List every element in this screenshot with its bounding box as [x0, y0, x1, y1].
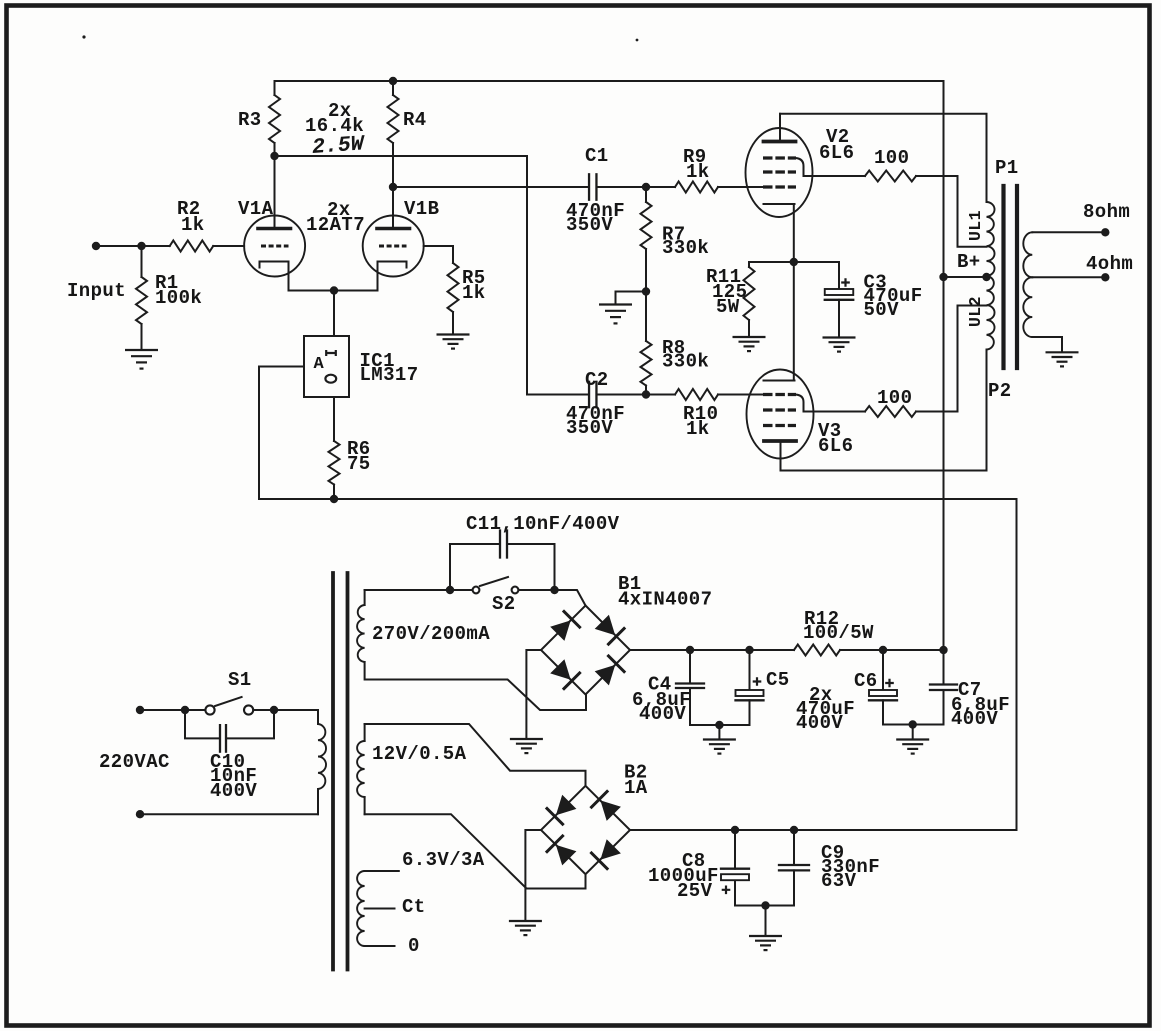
resistor 100 V3 screen: [804, 411, 866, 413]
svg-text:Ct: Ct: [402, 896, 426, 918]
svg-text:270V/200mA: 270V/200mA: [372, 623, 490, 645]
capacitor C10: [185, 710, 220, 738]
svg-text:350V: 350V: [566, 417, 613, 439]
ground C6 C7: [912, 725, 914, 739]
wire bias ground stub: [616, 292, 647, 304]
wire heater dc rail: [259, 498, 1017, 500]
wire AC line top: [140, 709, 205, 711]
capacitor C7: [943, 650, 945, 685]
wire cathode bus: [749, 261, 839, 263]
wire C8 C9 return: [735, 905, 794, 907]
svg-text:UL2: UL2: [966, 296, 985, 327]
svg-text:63V: 63V: [821, 870, 857, 892]
capacitor C9: [793, 830, 795, 865]
resistor R2: [170, 241, 214, 252]
wire R12 to B+ node: [840, 649, 944, 651]
wire heater dc out: [630, 829, 1017, 831]
svg-text:UL1: UL1: [966, 210, 985, 241]
node C5 junction: [745, 646, 753, 654]
wire 0 tap: [365, 945, 395, 947]
svg-text:P1: P1: [995, 157, 1019, 179]
ground B2: [509, 920, 542, 922]
svg-text:S1: S1: [228, 669, 252, 691]
bridge rectifier B2: [541, 786, 630, 874]
svg-text:V1B: V1B: [404, 198, 439, 220]
node B+ rail junction: [939, 273, 947, 281]
resistor R9: [646, 186, 675, 188]
svg-text:1k: 1k: [181, 214, 205, 236]
svg-text:6.3V/3A: 6.3V/3A: [402, 849, 485, 871]
wire Ct tap: [365, 908, 395, 910]
node C10 left junction: [181, 706, 189, 714]
pentode V3 6L6: [747, 370, 814, 459]
svg-text:A: A: [314, 355, 325, 374]
capacitor C1: [588, 174, 590, 199]
node C9 junction: [790, 826, 798, 834]
svg-text:C6: C6: [854, 670, 878, 692]
wire B+ drop: [943, 81, 945, 650]
transformer winding 6.3V/3A: [357, 871, 364, 946]
wire V2 cathode lead: [793, 204, 795, 381]
ground bias divider: [599, 303, 632, 305]
node C2 junction: [642, 390, 650, 398]
svg-text:8ohm: 8ohm: [1083, 201, 1130, 223]
wire V2 anode to P1 top: [780, 114, 987, 202]
svg-text:P2: P2: [988, 380, 1012, 402]
switch S2: [480, 577, 508, 586]
svg-text:100: 100: [877, 387, 912, 409]
svg-text:4xIN4007: 4xIN4007: [618, 589, 712, 611]
wire top B+ rail: [275, 80, 944, 82]
resistor R5: [452, 246, 454, 263]
wire input: [96, 245, 170, 247]
node 4ohm terminal: [1101, 273, 1109, 281]
node C8 junction: [731, 826, 739, 834]
wire to IC1 input: [333, 291, 335, 337]
svg-text:LM317: LM317: [360, 364, 419, 386]
diode B2 D4: [600, 839, 621, 860]
wire HT to S2: [365, 589, 473, 591]
svg-text:12V/0.5A: 12V/0.5A: [372, 743, 467, 765]
svg-text:1k: 1k: [686, 418, 710, 440]
node V2 V3 cathode junction: [790, 258, 798, 266]
resistor 100 V2 screen: [804, 175, 866, 177]
resistor R8: [645, 292, 647, 342]
node C11 right junction: [550, 586, 558, 594]
resistor R6: [329, 441, 340, 485]
svg-text:B+: B+: [957, 251, 981, 273]
wire IC1 adj loop: [259, 367, 304, 500]
wire C6 C7 return: [883, 724, 944, 726]
svg-text:5W: 5W: [716, 296, 740, 318]
ground C4 C5: [718, 725, 720, 739]
switch S1: [215, 697, 242, 706]
node C6 C7 ground junction: [909, 720, 917, 728]
node C11 left junction: [446, 586, 454, 594]
wire UL2 tap: [958, 306, 987, 412]
ground R1: [125, 349, 158, 351]
svg-text:330k: 330k: [662, 351, 709, 373]
node C4 junction: [686, 646, 694, 654]
ground R5: [437, 333, 470, 335]
resistor R7: [645, 187, 647, 202]
svg-text:100: 100: [874, 147, 909, 169]
wire S2 to bridge: [519, 590, 586, 606]
node cathode junction: [330, 286, 338, 294]
svg-text:C5: C5: [766, 669, 790, 691]
node C8 C9 ground junction: [761, 901, 769, 909]
node input terminal: [92, 242, 100, 250]
pentode V2 6L6: [746, 128, 813, 217]
capacitor C6: [882, 650, 884, 690]
ground speaker return: [1046, 351, 1079, 353]
diode B2 D1: [556, 795, 577, 816]
diode B1 D3: [550, 659, 571, 680]
ground C3: [823, 336, 856, 338]
diode B2 D2: [600, 800, 621, 821]
svg-text:50V: 50V: [864, 299, 900, 321]
svg-text:400V: 400V: [210, 780, 257, 802]
capacitor C5: [749, 650, 751, 690]
capacitor C4: [689, 650, 691, 684]
svg-text:400V: 400V: [639, 703, 686, 725]
svg-text:100k: 100k: [155, 287, 202, 309]
wire V1B anode to C1: [393, 186, 589, 188]
svg-text:0: 0: [408, 935, 420, 957]
diode B1 D1: [550, 620, 571, 641]
svg-text:220VAC: 220VAC: [99, 751, 170, 773]
svg-text:400V: 400V: [796, 712, 843, 734]
node V1A anode junction: [270, 152, 278, 160]
svg-text:6L6: 6L6: [819, 142, 854, 164]
wire C4 C5 return: [690, 724, 750, 726]
svg-text:R4: R4: [403, 109, 427, 131]
svg-text:1k: 1k: [686, 161, 710, 183]
wire 4ohm tap: [1032, 276, 1105, 278]
wire IC1 output: [333, 397, 335, 441]
node R4 top junction: [389, 77, 397, 85]
resistor R1: [141, 246, 143, 277]
resistor R12: [794, 645, 840, 656]
triode V1A: [244, 216, 305, 277]
ground C8 C9: [765, 906, 767, 936]
wire V1A anode to C2 feed: [275, 156, 590, 395]
bridge rectifier B1: [541, 606, 630, 695]
diode B1 D4: [595, 665, 616, 686]
resistor R3: [274, 81, 276, 95]
wire V3 anode to P2 bottom: [781, 350, 987, 471]
capacitor C11: [450, 544, 500, 590]
ground R11: [733, 336, 766, 338]
node 8ohm terminal: [1101, 228, 1109, 236]
node C10 right junction: [270, 706, 278, 714]
wire cathode tail: [289, 290, 378, 292]
node R1 junction: [137, 242, 145, 250]
wire 12V bottom to B2: [365, 814, 586, 888]
transformer T1 primary: [317, 710, 319, 724]
svg-text:6L6: 6L6: [818, 435, 853, 457]
transformer secondary winding: [1032, 231, 1105, 233]
ground B1: [510, 738, 543, 740]
transformer core: [1001, 186, 1005, 368]
svg-text:12AT7: 12AT7: [306, 214, 365, 236]
node 220VAC top terminal: [136, 706, 144, 714]
diode B1 D2: [595, 615, 616, 636]
node B+ tap: [982, 273, 990, 281]
svg-text:330k: 330k: [662, 237, 709, 259]
wire B1 minus to ground: [526, 650, 541, 738]
capacitor C8: [734, 830, 736, 869]
node B+ filter junction: [939, 646, 947, 654]
transformer winding 270V/200mA: [364, 590, 366, 605]
svg-text:C1: C1: [585, 145, 609, 167]
node C4 C5 ground junction: [715, 721, 723, 729]
resistor R10: [646, 394, 675, 396]
svg-text:Input: Input: [67, 280, 126, 302]
svg-text:1A: 1A: [624, 777, 648, 799]
wire AC line bottom: [140, 813, 318, 815]
wire HT dc rail: [630, 649, 794, 651]
resistor R11: [748, 262, 750, 267]
diode B2 D3: [556, 845, 577, 866]
svg-text:R3: R3: [238, 109, 262, 131]
svg-text:75: 75: [347, 453, 371, 475]
transformer T1 core: [331, 573, 335, 970]
wire 6.3V tap: [365, 870, 399, 872]
svg-text:C2: C2: [585, 369, 609, 391]
svg-text:400V: 400V: [951, 708, 998, 730]
wire B+ tap: [944, 276, 987, 278]
node V1B anode junction: [389, 183, 397, 191]
node 220VAC bottom terminal: [136, 810, 144, 818]
svg-text:4ohm: 4ohm: [1086, 253, 1133, 275]
svg-text:100/5W: 100/5W: [803, 622, 874, 644]
resistor R4: [392, 81, 394, 95]
capacitor C2: [588, 382, 590, 407]
transformer P1 P2 primary winding: [986, 114, 988, 202]
svg-text:350V: 350V: [566, 214, 613, 236]
op-amp IC1 LM317 regulator: [304, 336, 349, 397]
svg-text:25V: 25V: [677, 880, 713, 902]
node R7 R8 junction: [642, 287, 650, 295]
node R6 bottom junction: [330, 495, 338, 503]
node C1 junction: [642, 183, 650, 191]
wire UL1 tap: [958, 176, 987, 247]
wire AC after switch: [254, 709, 319, 711]
svg-text:V1A: V1A: [238, 198, 274, 220]
svg-text:C11,10nF/400V: C11,10nF/400V: [466, 513, 620, 535]
wire B2 left to ground: [525, 830, 541, 920]
svg-text:1k: 1k: [462, 282, 486, 304]
wire 12V top to B2: [365, 724, 586, 786]
svg-text:S2: S2: [492, 593, 516, 615]
node C6 junction: [879, 646, 887, 654]
triode V1B: [363, 216, 424, 277]
capacitor C3: [838, 262, 840, 289]
transformer winding 12V/0.5A: [364, 724, 366, 741]
